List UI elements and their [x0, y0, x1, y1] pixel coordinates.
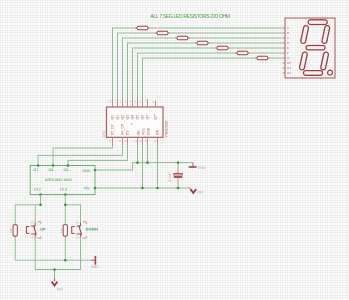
Arduino pin label D7 — [34, 168, 39, 172]
resistor R3 220 — [175, 36, 190, 40]
svg-text:DOWN: DOWN — [86, 227, 99, 232]
svg-text:10k: 10k — [59, 228, 63, 233]
resistor R2 220 — [155, 31, 170, 35]
IC value 74HC595 — [163, 120, 168, 138]
wire MR to +5V rail — [157, 145, 159, 188]
svg-text:G1: G1 — [287, 66, 291, 70]
svg-text:10-XX: 10-XX — [30, 236, 37, 240]
svg-text:Q1: Q1 — [116, 115, 120, 120]
resistor R5 220 — [215, 46, 230, 50]
wire DS to D6 — [68, 145, 128, 166]
svg-text:F: F — [287, 51, 289, 55]
junction dot arduino +5V pin — [94, 187, 97, 190]
segment C — [320, 52, 328, 71]
segment E — [299, 52, 307, 71]
junction dots GND rail — [136, 161, 179, 164]
wire SH_CP to D7 — [38, 145, 123, 166]
supply symbol +5V bottom — [52, 278, 64, 291]
svg-text:D13: D13 — [60, 188, 67, 192]
resistor R7 220 — [255, 56, 270, 60]
svg-text:*: * — [131, 122, 133, 127]
svg-text:GND: GND — [82, 169, 91, 173]
resistor R1 220 — [135, 26, 150, 30]
junction dot GND rail bottom — [64, 259, 67, 262]
svg-text:S1: S1 — [30, 220, 34, 224]
IC output pin labels Q0-Q7 — [111, 113, 158, 120]
svg-text:Q6: Q6 — [141, 115, 145, 120]
svg-text:D6: D6 — [64, 168, 69, 172]
segment B — [322, 25, 330, 44]
7-segment display pin labels — [287, 26, 291, 75]
svg-text:Q7": Q7" — [154, 113, 158, 120]
IC control pin labels — [111, 123, 160, 135]
svg-text:Q2: Q2 — [121, 115, 125, 120]
7-segment display pins A-G2 — [283, 28, 285, 73]
svg-text:Q5: Q5 — [136, 115, 140, 120]
pushbutton DOWN — [72, 220, 87, 239]
svg-text:GND: GND — [147, 127, 151, 135]
wire +5V rail — [95, 187, 189, 189]
wire net Q4-E — [133, 48, 283, 99]
svg-text:220: 220 — [159, 31, 164, 35]
wire GND rail bottom — [15, 259, 91, 261]
Arduino pin label D13 — [60, 188, 67, 192]
svg-text:Q7: Q7 — [146, 115, 150, 120]
svg-text:DS: DS — [126, 130, 130, 135]
svg-text:SH_CP: SH_CP — [121, 123, 125, 135]
svg-text:MR: MR — [156, 129, 160, 135]
wire OE to GND rail — [137, 145, 139, 163]
svg-text:Q3: Q3 — [126, 115, 130, 120]
svg-text:220: 220 — [219, 46, 224, 50]
svg-text:E: E — [287, 46, 289, 50]
svg-text:VCC: VCC — [142, 127, 146, 135]
resistor R2 10k (UP pulldown) — [9, 225, 17, 236]
IC U$1 74HC595 box — [107, 107, 164, 137]
resistor R6 220 — [235, 51, 250, 55]
svg-text:220: 220 — [199, 41, 204, 45]
wire ST_CP to D8 — [53, 145, 113, 166]
wire D13 net — [65, 195, 80, 261]
svg-text:B: B — [287, 31, 289, 35]
7-segment display U$2 box — [285, 18, 335, 78]
Arduino pin label D6 — [64, 168, 69, 172]
svg-text:220: 220 — [139, 26, 144, 30]
svg-text:+5V: +5V — [197, 191, 204, 195]
junction dot D13 wire — [64, 204, 67, 207]
segment G — [306, 46, 325, 50]
Arduino label ARDUINO UNO — [45, 178, 72, 182]
svg-text:Q4: Q4 — [131, 115, 135, 120]
label UP — [40, 227, 46, 232]
IC bottom pins — [113, 137, 158, 145]
svg-text:UP: UP — [40, 227, 46, 232]
label DOWN — [86, 227, 99, 232]
resistor R4 220 — [195, 41, 210, 45]
IC polarity mark — [131, 122, 133, 127]
svg-text:220: 220 — [239, 51, 244, 55]
wire net Q1-B — [118, 33, 283, 99]
Arduino pin label +5V — [83, 187, 90, 191]
wire net Q0-A — [113, 28, 283, 99]
Arduino Uno box — [30, 166, 95, 195]
wire D12 net — [15, 195, 40, 261]
IC top pin numbers — [109, 100, 155, 105]
segment D — [304, 71, 323, 76]
svg-text:S2: S2 — [76, 220, 80, 224]
Arduino pin label D8 — [49, 168, 54, 172]
junction dot D12 wire — [39, 204, 42, 207]
svg-text:D8: D8 — [49, 168, 54, 172]
svg-text:OE: OE — [137, 130, 141, 136]
svg-text:ALL 7 SEG LED RESISTORS 220 OH: ALL 7 SEG LED RESISTORS 220 OHM — [150, 14, 230, 20]
wire capacitor branch — [177, 163, 179, 188]
wire net Q2-C — [123, 38, 283, 99]
ground symbol GND bottom — [91, 256, 99, 269]
segment A — [308, 20, 327, 25]
IC top pins Q0-Q7, Q7" — [113, 99, 156, 107]
capacitor C1 0.1uF — [168, 166, 182, 185]
ground symbol GND right — [189, 163, 207, 170]
wire VCC to +5V rail — [142, 145, 144, 188]
svg-text:Q0: Q0 — [111, 115, 115, 120]
svg-text:+5V: +5V — [83, 187, 90, 191]
wire GND rail — [95, 163, 193, 170]
pushbutton UP — [26, 220, 41, 239]
wire IC GND to GND rail — [147, 145, 149, 163]
segment DP — [328, 70, 333, 75]
svg-text:10-XX: 10-XX — [76, 236, 83, 240]
wire +5V stub bottom — [54, 270, 56, 279]
Arduino pin label GND — [82, 169, 91, 173]
Arduino pin label D12 — [34, 188, 41, 192]
wire net Q5-F — [138, 53, 283, 99]
svg-text:74HC595: 74HC595 — [163, 120, 168, 138]
note text: ALL 7 SEG LED RESISTORS 220 OHM — [150, 14, 230, 20]
svg-text:D7: D7 — [34, 168, 39, 172]
junction dot arduino GND pin — [94, 169, 97, 172]
supply symbol +5V right — [189, 188, 204, 195]
svg-text:220: 220 — [259, 56, 264, 60]
svg-text:220: 220 — [179, 36, 184, 40]
wire net Q3-D — [128, 43, 283, 99]
IC name U$1 — [102, 130, 106, 137]
svg-text:G2: G2 — [287, 71, 291, 75]
segment F — [300, 25, 308, 44]
svg-text:GND: GND — [91, 265, 99, 269]
svg-text:ARDUINO UNO: ARDUINO UNO — [45, 178, 72, 182]
svg-text:U$1: U$1 — [102, 130, 106, 137]
wire net Q6-G — [143, 58, 283, 99]
svg-text:DP: DP — [287, 61, 291, 65]
svg-text:D12: D12 — [34, 188, 41, 192]
junction dot +5V rail bottom — [53, 268, 56, 271]
svg-text:ST_CP: ST_CP — [111, 124, 115, 136]
IC bottom pin numbers — [109, 139, 158, 143]
junction dots top pins of arduino — [37, 164, 70, 167]
svg-text:0.1uF: 0.1uF — [168, 173, 172, 182]
junction dots +5V rail — [141, 187, 179, 190]
svg-text:+5V: +5V — [56, 287, 63, 291]
wire UP button branch — [34, 205, 36, 223]
svg-text:GND: GND — [198, 166, 206, 170]
wire +5V rail bottom — [35, 237, 80, 270]
resistor R3 10k (DOWN pulldown) — [59, 225, 67, 236]
svg-text:10k: 10k — [9, 228, 13, 233]
junction dots bottom pins of arduino — [39, 193, 66, 196]
